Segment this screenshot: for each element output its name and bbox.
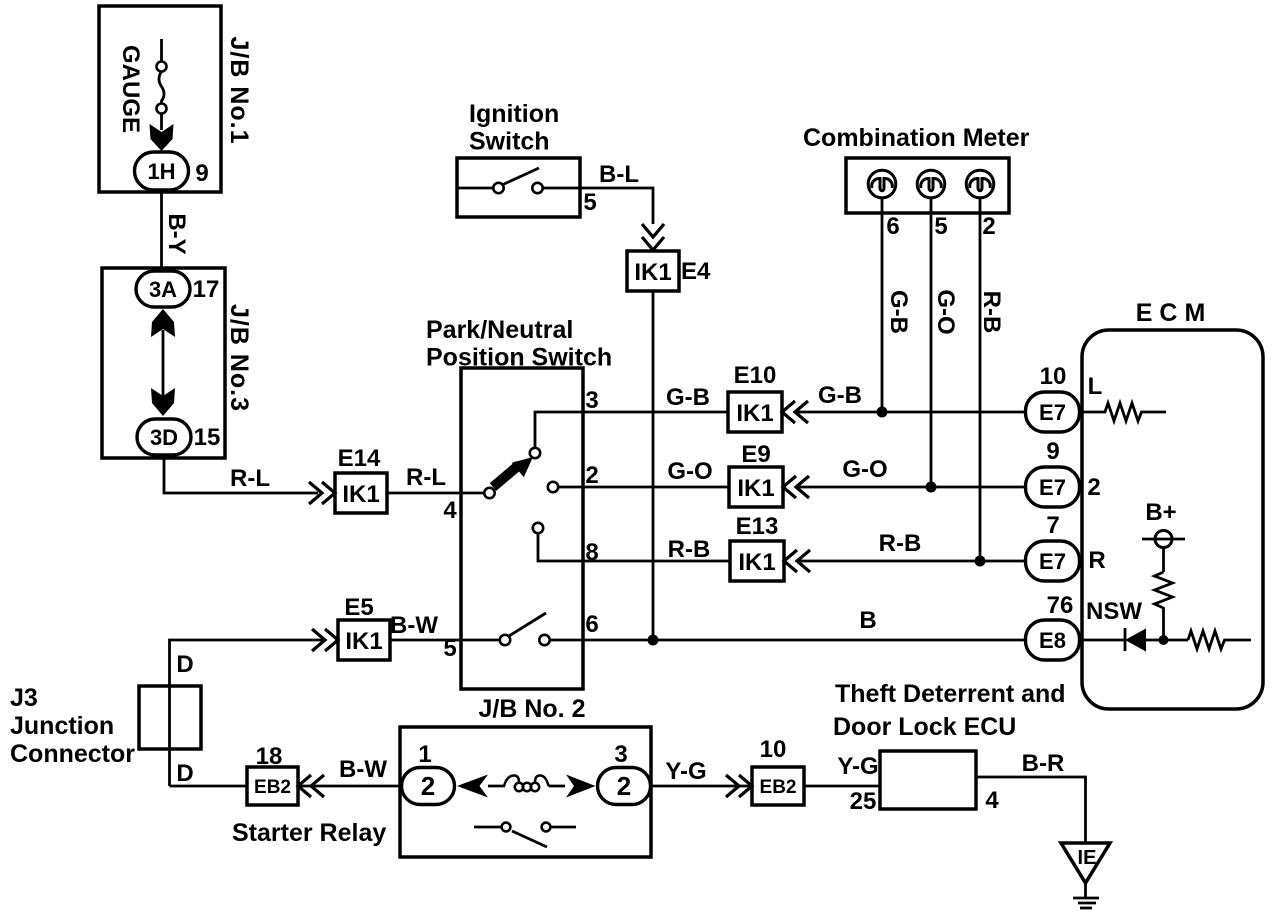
svg-text:IK1: IK1	[737, 475, 774, 502]
svg-text:1: 1	[418, 741, 431, 768]
svg-text:5: 5	[583, 189, 596, 216]
svg-text:E5: E5	[344, 594, 373, 621]
svg-text:IK1: IK1	[736, 400, 773, 427]
svg-text:G-B: G-B	[666, 384, 710, 411]
svg-text:IK1: IK1	[342, 481, 379, 508]
svg-text:E7: E7	[1039, 400, 1066, 425]
svg-text:G-B: G-B	[818, 382, 862, 409]
svg-text:B-W: B-W	[390, 612, 438, 639]
svg-text:B: B	[859, 607, 876, 634]
svg-text:5: 5	[934, 213, 947, 240]
svg-text:2: 2	[617, 771, 631, 801]
svg-text:7: 7	[1046, 512, 1059, 539]
svg-text:Combination Meter: Combination Meter	[803, 124, 1030, 152]
svg-text:Starter Relay: Starter Relay	[232, 819, 386, 847]
svg-text:E10: E10	[734, 362, 777, 389]
svg-text:R-B: R-B	[668, 536, 711, 563]
svg-text:17: 17	[193, 276, 220, 303]
svg-text:E8: E8	[1039, 628, 1066, 653]
svg-text:IK1: IK1	[738, 549, 775, 576]
svg-text:2: 2	[1087, 474, 1100, 501]
svg-text:Door Lock ECU: Door Lock ECU	[833, 713, 1016, 741]
svg-text:E9: E9	[741, 441, 770, 468]
svg-text:IE: IE	[1078, 847, 1097, 869]
svg-text:D: D	[176, 760, 193, 787]
svg-text:GAUGE: GAUGE	[117, 45, 144, 133]
svg-text:15: 15	[194, 424, 221, 451]
svg-text:6: 6	[585, 611, 598, 638]
svg-text:G-O: G-O	[667, 458, 712, 485]
svg-text:B+: B+	[1145, 499, 1176, 526]
svg-text:3: 3	[585, 387, 598, 414]
svg-text:G-B: G-B	[885, 290, 912, 334]
svg-text:3A: 3A	[149, 277, 177, 302]
svg-text:Y-G: Y-G	[837, 753, 878, 780]
svg-text:R-B: R-B	[879, 530, 922, 557]
svg-text:Theft Deterrent and: Theft Deterrent and	[835, 680, 1066, 708]
svg-text:E14: E14	[338, 445, 381, 472]
svg-text:B-L: B-L	[599, 161, 639, 188]
svg-text:6: 6	[886, 213, 899, 240]
svg-text:2: 2	[982, 213, 995, 240]
svg-text:Junction: Junction	[10, 712, 114, 740]
svg-text:Ignition: Ignition	[469, 100, 559, 128]
svg-text:J3: J3	[10, 684, 38, 712]
svg-text:ECM: ECM	[1136, 299, 1213, 327]
svg-text:B-W: B-W	[339, 756, 387, 783]
svg-text:EB2: EB2	[760, 777, 797, 798]
svg-text:NSW: NSW	[1086, 598, 1142, 625]
svg-text:J/B No.3: J/B No.3	[225, 304, 253, 412]
svg-text:Y-G: Y-G	[665, 758, 706, 785]
svg-text:Park/Neutral: Park/Neutral	[426, 316, 573, 344]
svg-text:L: L	[1088, 373, 1103, 400]
svg-text:E4: E4	[681, 258, 711, 285]
svg-text:9: 9	[195, 160, 208, 187]
svg-text:IK1: IK1	[345, 628, 382, 655]
svg-text:8: 8	[585, 539, 598, 566]
svg-text:G-O: G-O	[842, 456, 887, 483]
svg-text:B-Y: B-Y	[163, 213, 190, 254]
svg-text:J/B No.1: J/B No.1	[225, 36, 253, 144]
svg-text:9: 9	[1046, 438, 1059, 465]
svg-text:5: 5	[443, 635, 456, 662]
svg-text:4: 4	[985, 787, 999, 814]
svg-text:J/B No. 2: J/B No. 2	[479, 695, 586, 723]
svg-text:2: 2	[585, 462, 598, 489]
svg-text:G-O: G-O	[932, 289, 959, 334]
svg-text:Switch: Switch	[469, 128, 550, 156]
svg-text:1H: 1H	[147, 159, 175, 184]
svg-text:18: 18	[256, 743, 283, 770]
svg-text:D: D	[176, 651, 193, 678]
svg-text:B-R: B-R	[1022, 750, 1065, 777]
svg-text:Position Switch: Position Switch	[426, 344, 612, 372]
svg-text:Connector: Connector	[10, 740, 135, 768]
svg-text:E7: E7	[1039, 475, 1066, 500]
svg-text:10: 10	[760, 736, 787, 763]
svg-text:25: 25	[850, 788, 877, 815]
svg-text:E7: E7	[1039, 549, 1066, 574]
svg-text:3: 3	[614, 741, 627, 768]
svg-text:10: 10	[1040, 363, 1067, 390]
svg-text:R-L: R-L	[230, 465, 270, 492]
svg-text:IK1: IK1	[634, 259, 671, 286]
svg-text:R-B: R-B	[978, 291, 1005, 334]
svg-text:2: 2	[421, 771, 435, 801]
svg-text:76: 76	[1047, 592, 1074, 619]
svg-text:R: R	[1088, 547, 1105, 574]
svg-text:4: 4	[443, 497, 457, 524]
svg-text:E13: E13	[736, 513, 779, 540]
svg-text:3D: 3D	[150, 425, 178, 450]
svg-text:EB2: EB2	[254, 777, 291, 798]
svg-text:R-L: R-L	[406, 464, 446, 491]
